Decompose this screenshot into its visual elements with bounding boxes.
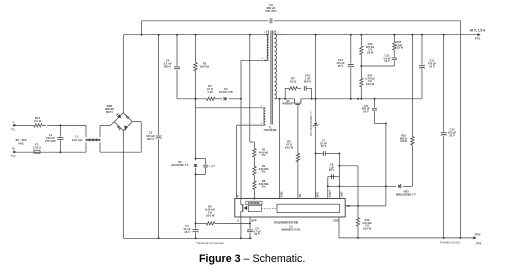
label VR3 MMSZ5266B — [396, 190, 416, 197]
label C12 100 uF 35 V — [448, 128, 457, 138]
junction FB corner — [385, 123, 387, 125]
resistor R8 — [253, 178, 256, 193]
capacitor C7 — [324, 151, 326, 156]
svg-text:200 V: 200 V — [304, 79, 311, 83]
junction VR1 bus cross — [315, 98, 317, 100]
wire secondary bottom — [274, 98, 294, 100]
wire VR1 upper — [315, 35, 317, 122]
zener VR1 — [313, 123, 319, 127]
transformer T1 core — [271, 31, 272, 125]
svg-text:1/16 W: 1/16 W — [366, 82, 375, 86]
transformer T1 bias winding — [264, 108, 265, 124]
junction C8 OVP node — [338, 185, 340, 187]
wire FB pin — [345, 205, 386, 207]
wire snubber right seg — [306, 87, 312, 89]
svg-text:35 V: 35 V — [338, 64, 344, 68]
wire C4 upper — [195, 223, 197, 228]
junction C12 bottom — [443, 237, 445, 239]
wire L1 left lower lead — [85, 142, 87, 152]
wire C12 upper — [443, 35, 445, 132]
label R13 — [366, 42, 375, 54]
svg-text:Figure 3 – Schematic.: Figure 3 – Schematic. — [199, 253, 305, 265]
junction C1 bottom — [59, 151, 61, 153]
wire bias top pin — [196, 107, 266, 109]
label R8 — [258, 179, 268, 189]
wire GND pin stub down — [338, 217, 340, 238]
junction right edge bottom — [459, 237, 461, 239]
capacitor C14 — [372, 108, 377, 110]
svg-text:1/8 W: 1/8 W — [367, 50, 374, 54]
capacitor C15 — [392, 58, 397, 60]
label R5 6.49 k — [205, 205, 215, 218]
svg-text:GND: GND — [341, 191, 344, 197]
junction C2 top — [158, 34, 160, 36]
wire up to bridge AC2 — [140, 122, 142, 153]
wire fuse to C1 bottom — [41, 151, 60, 153]
wire secondary top to rail — [274, 34, 283, 36]
label C10 1 nF 200 V — [304, 73, 311, 83]
wire bus1 left vertical — [141, 21, 143, 35]
junction C7 left — [315, 153, 317, 155]
capacitor C2 — [156, 136, 162, 139]
label C4 22 uF 16 V — [184, 224, 191, 234]
junction C1 top — [59, 124, 61, 126]
wire snubber right down — [311, 88, 313, 99]
node L input terminal TP1 — [10, 120, 16, 131]
capacitor C8 — [332, 174, 334, 179]
label D1 S1J/P-LTP — [219, 87, 233, 94]
inductor L1 upper winding — [86, 139, 100, 141]
label C9 680 pF 250 VAC — [265, 3, 276, 13]
wire C2 lower — [158, 139, 160, 238]
inductor L1 lower winding — [86, 139, 100, 141]
capacitor C3 — [174, 67, 180, 69]
wire VOUT vertical — [338, 154, 340, 199]
transistor Q2 SR FET — [295, 99, 301, 108]
wire N to fuse — [16, 151, 33, 153]
wire C1 to L1 bottom — [60, 151, 86, 153]
label R12 — [362, 218, 371, 230]
wire L1 to bridge AC1 — [100, 124, 111, 126]
svg-text:14.6 mH: 14.6 mH — [72, 138, 83, 142]
pin number 1 primary top — [264, 31, 269, 34]
terminal TP4 arrow — [473, 236, 476, 239]
resistor R1 — [253, 142, 256, 164]
label T1 — [264, 125, 278, 132]
svg-text:D: D — [237, 195, 239, 198]
capacitor C9 Y-cap — [270, 18, 272, 23]
junction sense chain top — [249, 34, 251, 36]
wire C12 lower — [443, 135, 445, 238]
wire bridge minus down — [122, 131, 124, 239]
pin number 6 secondary top — [274, 31, 279, 34]
wire C13 upper — [350, 35, 352, 64]
svg-text:50 V: 50 V — [384, 59, 390, 63]
junction C13 top — [350, 34, 352, 36]
U1 dashed link — [262, 208, 278, 210]
wire primary bottom pin — [241, 59, 269, 61]
svg-text:2.5 Ω: 2.5 Ω — [34, 119, 42, 123]
resistor R13 — [360, 35, 363, 66]
svg-text:4: 4 — [261, 106, 263, 108]
junction BPP left node — [195, 222, 197, 224]
junction FWD node — [279, 98, 281, 100]
label R1 — [259, 148, 268, 158]
op-amp U1 IC box — [235, 199, 345, 218]
label C7 10 nF 50 V — [320, 138, 327, 148]
svg-text:250 VAC: 250 VAC — [265, 9, 276, 13]
wire C1 to L1 top — [60, 124, 86, 126]
capacitor C1 — [57, 138, 63, 140]
svg-text:L: L — [13, 120, 15, 124]
wire sense chain upper — [249, 35, 251, 142]
svg-text:5: 5 — [261, 123, 263, 125]
svg-text:50 V: 50 V — [321, 144, 327, 148]
zener VR3 — [398, 184, 401, 188]
resistor R6 — [296, 152, 299, 163]
label R3 190 kOhm — [200, 62, 210, 69]
wire L1 bottom to bridge corner — [100, 151, 141, 153]
label R6 47 ohm — [285, 140, 294, 150]
wire D2 branch upper — [195, 99, 197, 161]
wire L1 right upper lead — [99, 125, 101, 137]
U1 inner block — [248, 205, 261, 211]
wire snubber left up — [284, 88, 286, 99]
wire C11 upper — [421, 35, 423, 65]
wire SR gate vertical — [297, 108, 299, 153]
diode D1 — [224, 97, 227, 101]
wire C4 lower — [195, 232, 197, 238]
wire secondary return bus — [339, 237, 476, 239]
label D2 BAV21WS — [171, 160, 189, 167]
capacitor C5 — [247, 230, 253, 232]
wire bias return vertical — [236, 125, 238, 198]
svg-text:3: 3 — [262, 58, 264, 60]
label RTN — [475, 233, 481, 237]
junction FB OVP cross — [385, 185, 387, 187]
wire L1 right lower lead — [99, 142, 101, 152]
wire D2 lower — [195, 168, 197, 174]
node N input terminal TP2 — [10, 147, 16, 158]
svg-text:CONTROL: CONTROL — [248, 202, 261, 205]
junction drain node — [240, 98, 242, 100]
wire C7 branch — [316, 153, 324, 155]
svg-text:42 Ω: 42 Ω — [290, 79, 297, 83]
svg-text:25 V: 25 V — [329, 168, 335, 172]
resistor R15 — [393, 35, 396, 57]
capacitor C16 optional — [203, 165, 208, 167]
label R14 — [365, 74, 374, 86]
junction S pin bottom — [240, 237, 242, 239]
svg-text:1/8 W: 1/8 W — [400, 139, 407, 143]
svg-text:1/16 W: 1/16 W — [285, 145, 294, 149]
capacitor C10 snubber — [304, 86, 306, 91]
label C1 100 nF 275 VAC — [45, 133, 56, 143]
junction R12 bottom — [357, 237, 359, 239]
label R7 42 ohm — [290, 76, 297, 83]
junction VOUT jog node — [338, 165, 340, 167]
svg-text:TP4: TP4 — [476, 242, 482, 246]
svg-text:30 V, 1.5 A: 30 V, 1.5 A — [470, 28, 486, 32]
resistor R3 — [194, 35, 197, 99]
junction C11 top — [421, 34, 423, 36]
junction D2 top — [195, 98, 197, 100]
svg-text:BPP: BPP — [251, 220, 256, 223]
wire VOUT jog — [339, 165, 358, 167]
junction GND on bus99 — [357, 98, 359, 100]
svg-text:2 W: 2 W — [208, 90, 213, 94]
resistor R7 snubber — [285, 87, 301, 90]
svg-text:275 VAC: 275 VAC — [45, 139, 56, 143]
svg-text:1/16 W: 1/16 W — [363, 226, 372, 230]
wire C15 lower — [393, 61, 395, 66]
svg-text:MMSZ5266B-7-F: MMSZ5266B-7-F — [396, 193, 416, 197]
svg-text:VAC: VAC — [18, 141, 25, 145]
label U1 part number — [281, 224, 301, 231]
label C2 100 uF 400 V — [146, 131, 155, 141]
wire C14 upper — [374, 99, 376, 108]
junction C5 bottom — [249, 237, 251, 239]
svg-text:TP3: TP3 — [475, 37, 481, 41]
svg-text:1: 1 — [264, 32, 266, 34]
wire C8 horizontal — [328, 176, 340, 178]
junction D2 parallel top — [195, 158, 197, 160]
svg-text:N: N — [12, 147, 14, 151]
svg-text:35 V: 35 V — [429, 64, 435, 68]
svg-text:16 V: 16 V — [184, 230, 190, 234]
wire sense chain to IC — [253, 193, 255, 199]
transistor U1 internal MOSFET — [241, 199, 249, 218]
svg-text:SR: SR — [299, 194, 302, 198]
junction C7 right — [338, 153, 340, 155]
label C5 4.7 uF 50 V — [253, 226, 261, 236]
wire rise to bridge AC1 — [111, 122, 115, 126]
wire FWD pin vertical — [279, 99, 281, 199]
label C13 470 uF 35 V — [336, 58, 345, 68]
wire C14 to FB — [375, 123, 386, 125]
svg-text:35 V: 35 V — [449, 133, 455, 137]
wire drain vertical — [240, 60, 242, 99]
label R15 — [395, 40, 404, 50]
wire GND vertical — [357, 166, 359, 206]
wire L1 left upper lead — [85, 125, 87, 137]
wire C2 upper — [158, 35, 160, 135]
svg-text:S: S — [237, 220, 239, 223]
wire top bus to C9 — [142, 20, 269, 22]
svg-text:BAV21WS-7-F: BAV21WS-7-F — [171, 163, 189, 167]
junction snubber left — [284, 98, 286, 100]
wire R16 upper — [411, 35, 413, 136]
svg-text:600 V: 600 V — [106, 110, 113, 114]
junction BPS OVP node — [327, 185, 329, 187]
wire drain to IC — [240, 99, 242, 199]
svg-text:*Optional component: *Optional component — [196, 241, 224, 245]
wire bridge right corner — [132, 121, 141, 123]
svg-text:TP2: TP2 — [10, 154, 16, 158]
svg-text:1 µF*: 1 µF* — [209, 164, 215, 168]
wire C11 lower — [421, 68, 423, 98]
junction R15 top — [393, 34, 395, 36]
svg-text:3.15 A: 3.15 A — [33, 146, 41, 150]
junction R13 top — [360, 34, 362, 36]
label R16 — [400, 134, 408, 144]
svg-text:60R360P7: 60R360P7 — [282, 103, 294, 106]
label 90 - 265 VAC — [15, 138, 26, 145]
label C15 — [383, 54, 391, 64]
wire C3 lower — [176, 70, 178, 99]
wire bias bottom pin — [237, 124, 266, 126]
junction C3 top — [176, 34, 178, 36]
resistor R16 — [411, 136, 414, 147]
junction bus1 on B+ — [141, 34, 143, 36]
junction R3 top — [195, 34, 197, 36]
wire S pin to ground bus — [240, 217, 242, 238]
junction R16 top rail — [411, 34, 413, 36]
wire C9 to right edge — [274, 20, 461, 22]
capacitor C13 — [348, 64, 354, 67]
label TP4 — [476, 242, 482, 246]
svg-text:PI-8046-012410: PI-8046-012410 — [440, 241, 461, 245]
svg-text:InnoSwitch3-CE: InnoSwitch3-CE — [274, 221, 298, 225]
transformer T1 primary winding — [267, 35, 268, 61]
terminal TP3 arrow — [478, 33, 481, 36]
label TP3 — [475, 37, 481, 41]
wire primary ground bus — [123, 237, 252, 239]
wire OVP horizontal — [328, 185, 396, 187]
svg-text:RTN: RTN — [475, 233, 481, 237]
wire output rail — [283, 34, 478, 36]
svg-text:S1J/P-LTP: S1J/P-LTP — [219, 90, 233, 94]
label F1 3.15 A — [33, 143, 41, 150]
svg-text:50 V: 50 V — [254, 232, 260, 236]
wire BPP pin stub — [249, 217, 251, 223]
wire R5 to BPP stub — [226, 222, 251, 224]
wire FB vertical — [385, 124, 387, 206]
wire L rail to C1 — [47, 124, 60, 126]
label C14 — [362, 104, 371, 114]
pin number 3 primary bottom — [262, 58, 266, 61]
diode D2 — [194, 164, 198, 167]
label Q2 — [282, 100, 294, 106]
svg-text:190 kΩ: 190 kΩ — [200, 65, 210, 69]
wire R4 to D1 — [216, 98, 223, 100]
wire B+ bus — [123, 34, 262, 36]
wire bridge plus up — [122, 35, 124, 113]
svg-text:630 V: 630 V — [164, 64, 171, 68]
U1 CONTROL block — [246, 201, 262, 205]
wire R16 lower — [411, 146, 413, 186]
junction R12 top — [357, 205, 359, 207]
wire C3 upper — [176, 35, 178, 66]
svg-text:6: 6 — [277, 32, 279, 34]
wire C7 to VOUT stub — [325, 153, 339, 155]
wire divider tap to R15 — [361, 65, 394, 67]
junction R14 bottom — [360, 98, 362, 100]
wire TP1 lead — [16, 124, 30, 126]
label L1 14.6 mH — [72, 135, 83, 142]
junction C4 bottom — [195, 237, 197, 239]
transformer T1 secondary winding — [274, 34, 276, 99]
label C3 2.2 nF 630 V — [163, 58, 171, 68]
wire R6 to SR pin — [297, 163, 299, 199]
resistor R2 — [253, 164, 256, 179]
wire right edge vertical — [459, 21, 461, 238]
wire C1 bottom lead — [59, 140, 61, 152]
label R4 47 ohm 2 W — [207, 84, 214, 94]
junction snubber right — [311, 98, 313, 100]
wire C5 upper — [249, 223, 251, 229]
svg-text:VR1 MMSZ5248B-7-F: VR1 MMSZ5248B-7-F — [310, 111, 313, 136]
wire D1 to drain node — [229, 98, 241, 100]
label U1 InnoSwitch3-CE — [274, 221, 298, 225]
wire BPS stub vertical — [327, 177, 329, 199]
wire C5 lower — [249, 233, 251, 239]
wire primary top pin — [262, 34, 269, 36]
svg-text:400 V: 400 V — [147, 137, 154, 141]
wire clamp bottom rail — [177, 98, 206, 100]
label R2 — [258, 164, 268, 174]
svg-text:BPS: BPS — [317, 192, 320, 197]
wire D2 to BPP node — [195, 174, 197, 223]
junction clamp node — [195, 98, 197, 100]
svg-text:750343485: 750343485 — [264, 128, 278, 132]
fuse F1 — [33, 150, 41, 153]
capacitor C11 — [419, 66, 425, 69]
label C8 1 uF 25 V — [329, 163, 335, 173]
wire Q2 source to bus — [301, 98, 351, 100]
label C11 470 uF 35 V — [428, 59, 437, 69]
capacitor C12 — [441, 133, 447, 136]
junction D2 parallel bottom — [195, 173, 197, 175]
label RT1 2.5 ohm — [34, 116, 42, 123]
svg-text:1/32 W: 1/32 W — [395, 46, 404, 50]
svg-text:TP1: TP1 — [10, 128, 16, 132]
resistor R5 — [196, 222, 226, 225]
svg-text:50 V: 50 V — [363, 109, 369, 113]
wire VR3 to R16 — [403, 185, 413, 187]
resistor R12 — [356, 206, 359, 238]
capacitor C4 — [193, 230, 199, 233]
junction VR1 top — [315, 34, 317, 36]
resistor R14 — [360, 66, 363, 99]
label 30 V 1.5 A — [470, 28, 486, 32]
wire C13 lower — [350, 67, 352, 99]
junction C13 bottom — [350, 98, 352, 100]
bridge rectifier BR1 — [114, 113, 132, 131]
wire sense jog — [250, 141, 255, 143]
wire C1 top lead — [59, 125, 61, 136]
junction C14 top — [374, 98, 376, 100]
wire C14 lower — [374, 111, 376, 124]
svg-text:FWD: FWD — [281, 191, 284, 197]
junction BPP node — [249, 222, 251, 224]
wire C16 parallel loop — [196, 159, 206, 175]
U1 secondary block — [277, 204, 340, 212]
junction divider tap — [360, 65, 362, 67]
wire return bus99 — [351, 98, 422, 100]
wire VR1 lower — [315, 126, 317, 198]
svg-text:VOUT: VOUT — [329, 190, 332, 197]
thermistor RT1 — [30, 124, 46, 127]
svg-text:GND: GND — [333, 220, 339, 223]
junction C12 top — [443, 34, 445, 36]
svg-text:INN3682C-H101: INN3682C-H101 — [281, 227, 301, 231]
junction C2 bottom — [158, 237, 160, 239]
svg-text:1/16 W: 1/16 W — [206, 213, 215, 217]
resistor R4 — [206, 97, 216, 100]
label BR1 DB106 600 V — [105, 104, 114, 114]
junction V pin at box edge — [253, 198, 255, 200]
